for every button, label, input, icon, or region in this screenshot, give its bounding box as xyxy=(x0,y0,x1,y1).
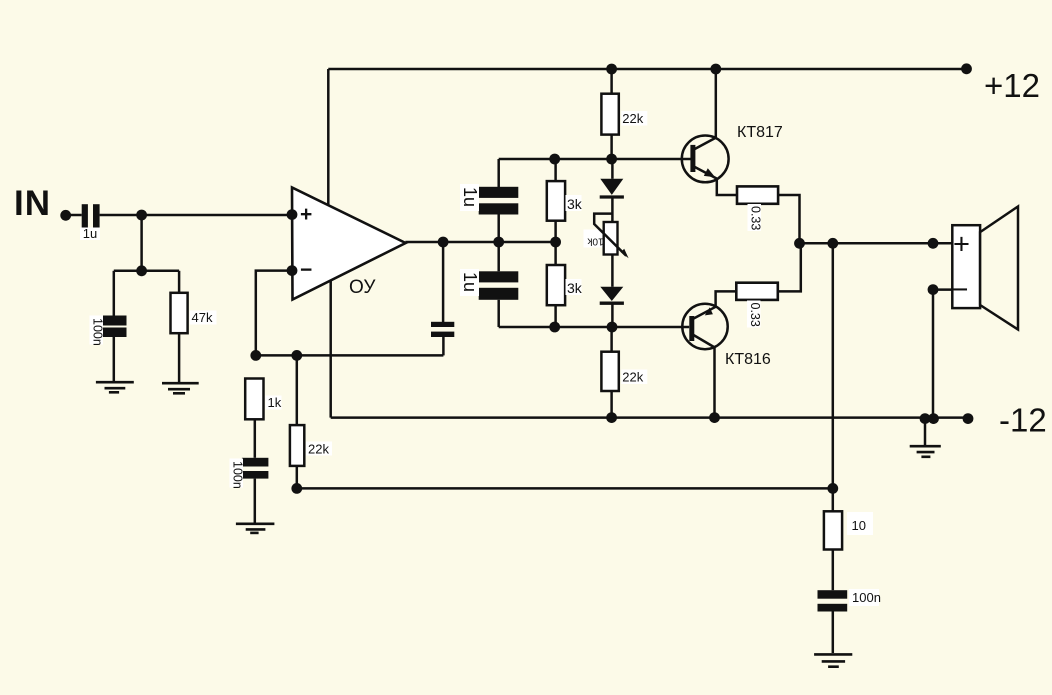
wire 47k to ground xyxy=(178,333,181,382)
svg-text:100n: 100n xyxy=(91,318,105,346)
wire op-amp output xyxy=(405,241,555,244)
wire 22k bottom to rail xyxy=(610,391,613,418)
label 3k upper xyxy=(566,195,582,211)
svg-text:0.33: 0.33 xyxy=(749,206,763,230)
label 22k lower xyxy=(621,370,647,385)
transistor Q2 KT816 xyxy=(682,304,727,349)
svg-text:22k: 22k xyxy=(622,370,643,385)
capacitor C1 1u input coupling xyxy=(82,204,100,228)
wire op-amp positive supply xyxy=(327,69,330,206)
thermistor 10k xyxy=(594,214,628,259)
ground under 1k chain xyxy=(236,524,275,533)
ground at -12 rail xyxy=(910,446,941,457)
wire feedback cap branch vertical xyxy=(442,337,445,355)
svg-text:+: + xyxy=(300,203,312,226)
capacitor C 1u lower xyxy=(479,271,519,300)
label 22k feedback xyxy=(306,442,332,456)
svg-text:−: − xyxy=(300,259,312,282)
svg-text:-12: -12 xyxy=(999,402,1047,439)
node speaker plus line xyxy=(928,238,939,249)
wire KT816 collector to bottom rail xyxy=(713,347,716,418)
resistor R 10 Zobel xyxy=(824,511,842,549)
wire minus input to feedback node xyxy=(256,271,292,356)
wire 1u cap chain middle lower xyxy=(497,242,500,271)
wire 22k top to bias node xyxy=(610,135,613,159)
svg-text:КТ817: КТ817 xyxy=(737,124,783,141)
node speaker minus corner xyxy=(928,284,939,295)
svg-text:ОУ: ОУ xyxy=(349,277,376,298)
svg-text:+12: +12 xyxy=(984,67,1040,104)
wire thermistor to diode D2 xyxy=(611,255,614,287)
ground under input 100n xyxy=(96,382,134,392)
resistor R 0.33 lower xyxy=(736,283,778,300)
wire feedback return line xyxy=(297,487,833,490)
label 1u lower xyxy=(460,269,479,296)
wire IN terminal to coupling cap xyxy=(66,214,82,217)
wire to input 100n cap xyxy=(113,271,116,316)
node IN terminal xyxy=(60,210,71,221)
capacitor C 1u upper xyxy=(479,187,519,215)
resistor R 22k feedback xyxy=(290,425,304,466)
wire -12 rail ground stub xyxy=(924,419,927,446)
diode D2 xyxy=(600,287,624,303)
wire bottom rail -12 xyxy=(331,416,968,419)
wire 22k down to node xyxy=(296,466,299,489)
node rail ground stub xyxy=(920,413,931,424)
resistor R 22k upper bias xyxy=(601,94,618,135)
node dots xyxy=(60,63,973,493)
wire 1u cap chain bottom xyxy=(497,300,500,327)
label 10 xyxy=(847,512,873,535)
resistor R 3k upper xyxy=(547,181,565,221)
svg-text:0.33: 0.33 xyxy=(748,303,762,327)
node bottom rail collector xyxy=(709,412,720,423)
svg-text:+: + xyxy=(953,229,970,261)
node top rail collector xyxy=(710,64,721,75)
wire 1u cap chain top xyxy=(497,159,500,187)
wire KT816 emitter to 0.33 xyxy=(716,291,737,306)
svg-text:1u: 1u xyxy=(460,272,480,292)
node output Zobel branch xyxy=(827,238,838,249)
wire KT817 collector to top rail xyxy=(715,69,718,137)
label 1u upper xyxy=(460,184,479,211)
node rail speaker minus xyxy=(928,413,939,424)
op-amp U1 triangle xyxy=(292,188,406,300)
node feedback return right xyxy=(827,483,838,494)
resistor R 47k xyxy=(171,293,188,333)
capacitor 100n Zobel xyxy=(818,590,848,611)
wire output junction down to feedback cap xyxy=(442,242,445,322)
svg-text:100n: 100n xyxy=(852,590,881,605)
node bottom rail end xyxy=(963,413,974,424)
label 3k lower xyxy=(566,279,582,295)
capacitor 100n input filter xyxy=(102,316,127,338)
speaker LS1 xyxy=(952,207,1018,330)
wire diode D1 to thermistor xyxy=(611,196,614,222)
wire speaker minus down to bottom rail xyxy=(933,290,952,419)
node input junction xyxy=(136,210,147,221)
svg-text:IN: IN xyxy=(14,184,51,223)
svg-text:КТ816: КТ816 xyxy=(725,351,771,368)
wire top rail +12 xyxy=(328,68,966,71)
wire 1k to its 100n cap xyxy=(254,419,257,458)
label 10k rotated xyxy=(584,230,605,248)
node top rail 22k xyxy=(606,64,617,75)
wire 1u cap chain middle upper xyxy=(497,215,500,243)
wire 1k 100n cap to ground xyxy=(254,479,257,524)
label 22k upper xyxy=(621,111,647,126)
wire feedback node to 22k xyxy=(296,355,299,425)
label 0.33 upper xyxy=(748,204,762,231)
wire op-amp negative supply xyxy=(329,279,332,418)
node bottom bias diode xyxy=(607,322,618,333)
node bottom rail 22k xyxy=(606,412,617,423)
label 1k xyxy=(266,396,282,410)
svg-text:3k: 3k xyxy=(567,280,583,296)
wire diode D2 to lower bias node xyxy=(611,303,614,327)
wire input 100n cap to ground xyxy=(113,337,116,382)
wire 22k top from rail xyxy=(610,69,613,94)
node feedback left xyxy=(250,350,261,361)
capacitor feedback small xyxy=(431,322,454,337)
wire Zobel resistor to 100n xyxy=(832,550,835,591)
diode D1 xyxy=(600,179,624,197)
wire feedback node horizontal xyxy=(256,354,444,357)
svg-text:−: − xyxy=(952,274,969,306)
label 47k xyxy=(190,311,217,325)
svg-text:22k: 22k xyxy=(308,442,329,457)
node feedback 22k top xyxy=(291,350,302,361)
label 1u for C1 xyxy=(80,228,100,241)
node RC junction xyxy=(136,265,147,276)
resistor R 0.33 upper xyxy=(737,186,778,203)
wire 0.33 top to output node xyxy=(778,195,799,243)
wire KT817 emitter to 0.33 xyxy=(717,179,737,195)
resistor R 3k lower xyxy=(547,265,565,305)
svg-text:10k: 10k xyxy=(586,236,603,247)
wire input RC branch horizontal xyxy=(114,270,179,273)
wire lower bias node to 22k bottom xyxy=(610,327,613,352)
node output 0.33 join xyxy=(794,238,805,249)
node 3k mid xyxy=(550,237,561,248)
label 100n under 1k xyxy=(230,459,244,488)
svg-text:3k: 3k xyxy=(567,196,583,212)
label 100n Zobel xyxy=(849,589,879,606)
ground under Zobel xyxy=(814,654,852,666)
wire output rail to speaker plus xyxy=(799,242,952,245)
node bottom bias left xyxy=(549,322,560,333)
node plus input xyxy=(287,209,298,220)
wire to resistor R 47k xyxy=(178,271,181,293)
node top bias diode xyxy=(606,154,617,165)
wire bias node to diode D1 xyxy=(611,159,614,179)
wire 0.33 bottom to output node xyxy=(778,243,801,291)
svg-text:22k: 22k xyxy=(622,111,643,126)
svg-text:1k: 1k xyxy=(268,395,282,410)
label 0.33 lower xyxy=(747,301,761,328)
wire input junction down xyxy=(140,215,143,271)
wire output node down to Zobel xyxy=(832,243,835,511)
capacitor 100n under 1k xyxy=(242,458,269,479)
resistor R 1k xyxy=(245,379,263,420)
svg-text:1u: 1u xyxy=(460,187,480,207)
node minus input xyxy=(287,265,298,276)
wire 3k chain top xyxy=(554,159,557,181)
wire 3k chain bottom xyxy=(554,305,557,327)
resistor R 22k lower bias xyxy=(601,352,618,391)
node top bias left xyxy=(549,154,560,165)
wire 3k chain middle xyxy=(554,221,557,265)
wire coupling cap to op-amp plus input xyxy=(100,214,292,217)
transistor Q1 KT817 xyxy=(682,136,729,183)
node op-amp output xyxy=(438,237,449,248)
label 100n input filter xyxy=(90,316,104,345)
wire top bias line xyxy=(499,158,691,161)
svg-text:100n: 100n xyxy=(231,461,245,489)
node top rail end xyxy=(961,63,972,74)
svg-text:1u: 1u xyxy=(83,226,97,241)
ground under 47k xyxy=(162,383,199,393)
node 22k bottom xyxy=(291,483,302,494)
wire bottom bias line xyxy=(499,326,690,329)
node cap chain mid xyxy=(493,237,504,248)
svg-text:47k: 47k xyxy=(192,310,213,325)
svg-text:10: 10 xyxy=(852,518,866,533)
wire Zobel 100n to ground xyxy=(832,612,835,654)
